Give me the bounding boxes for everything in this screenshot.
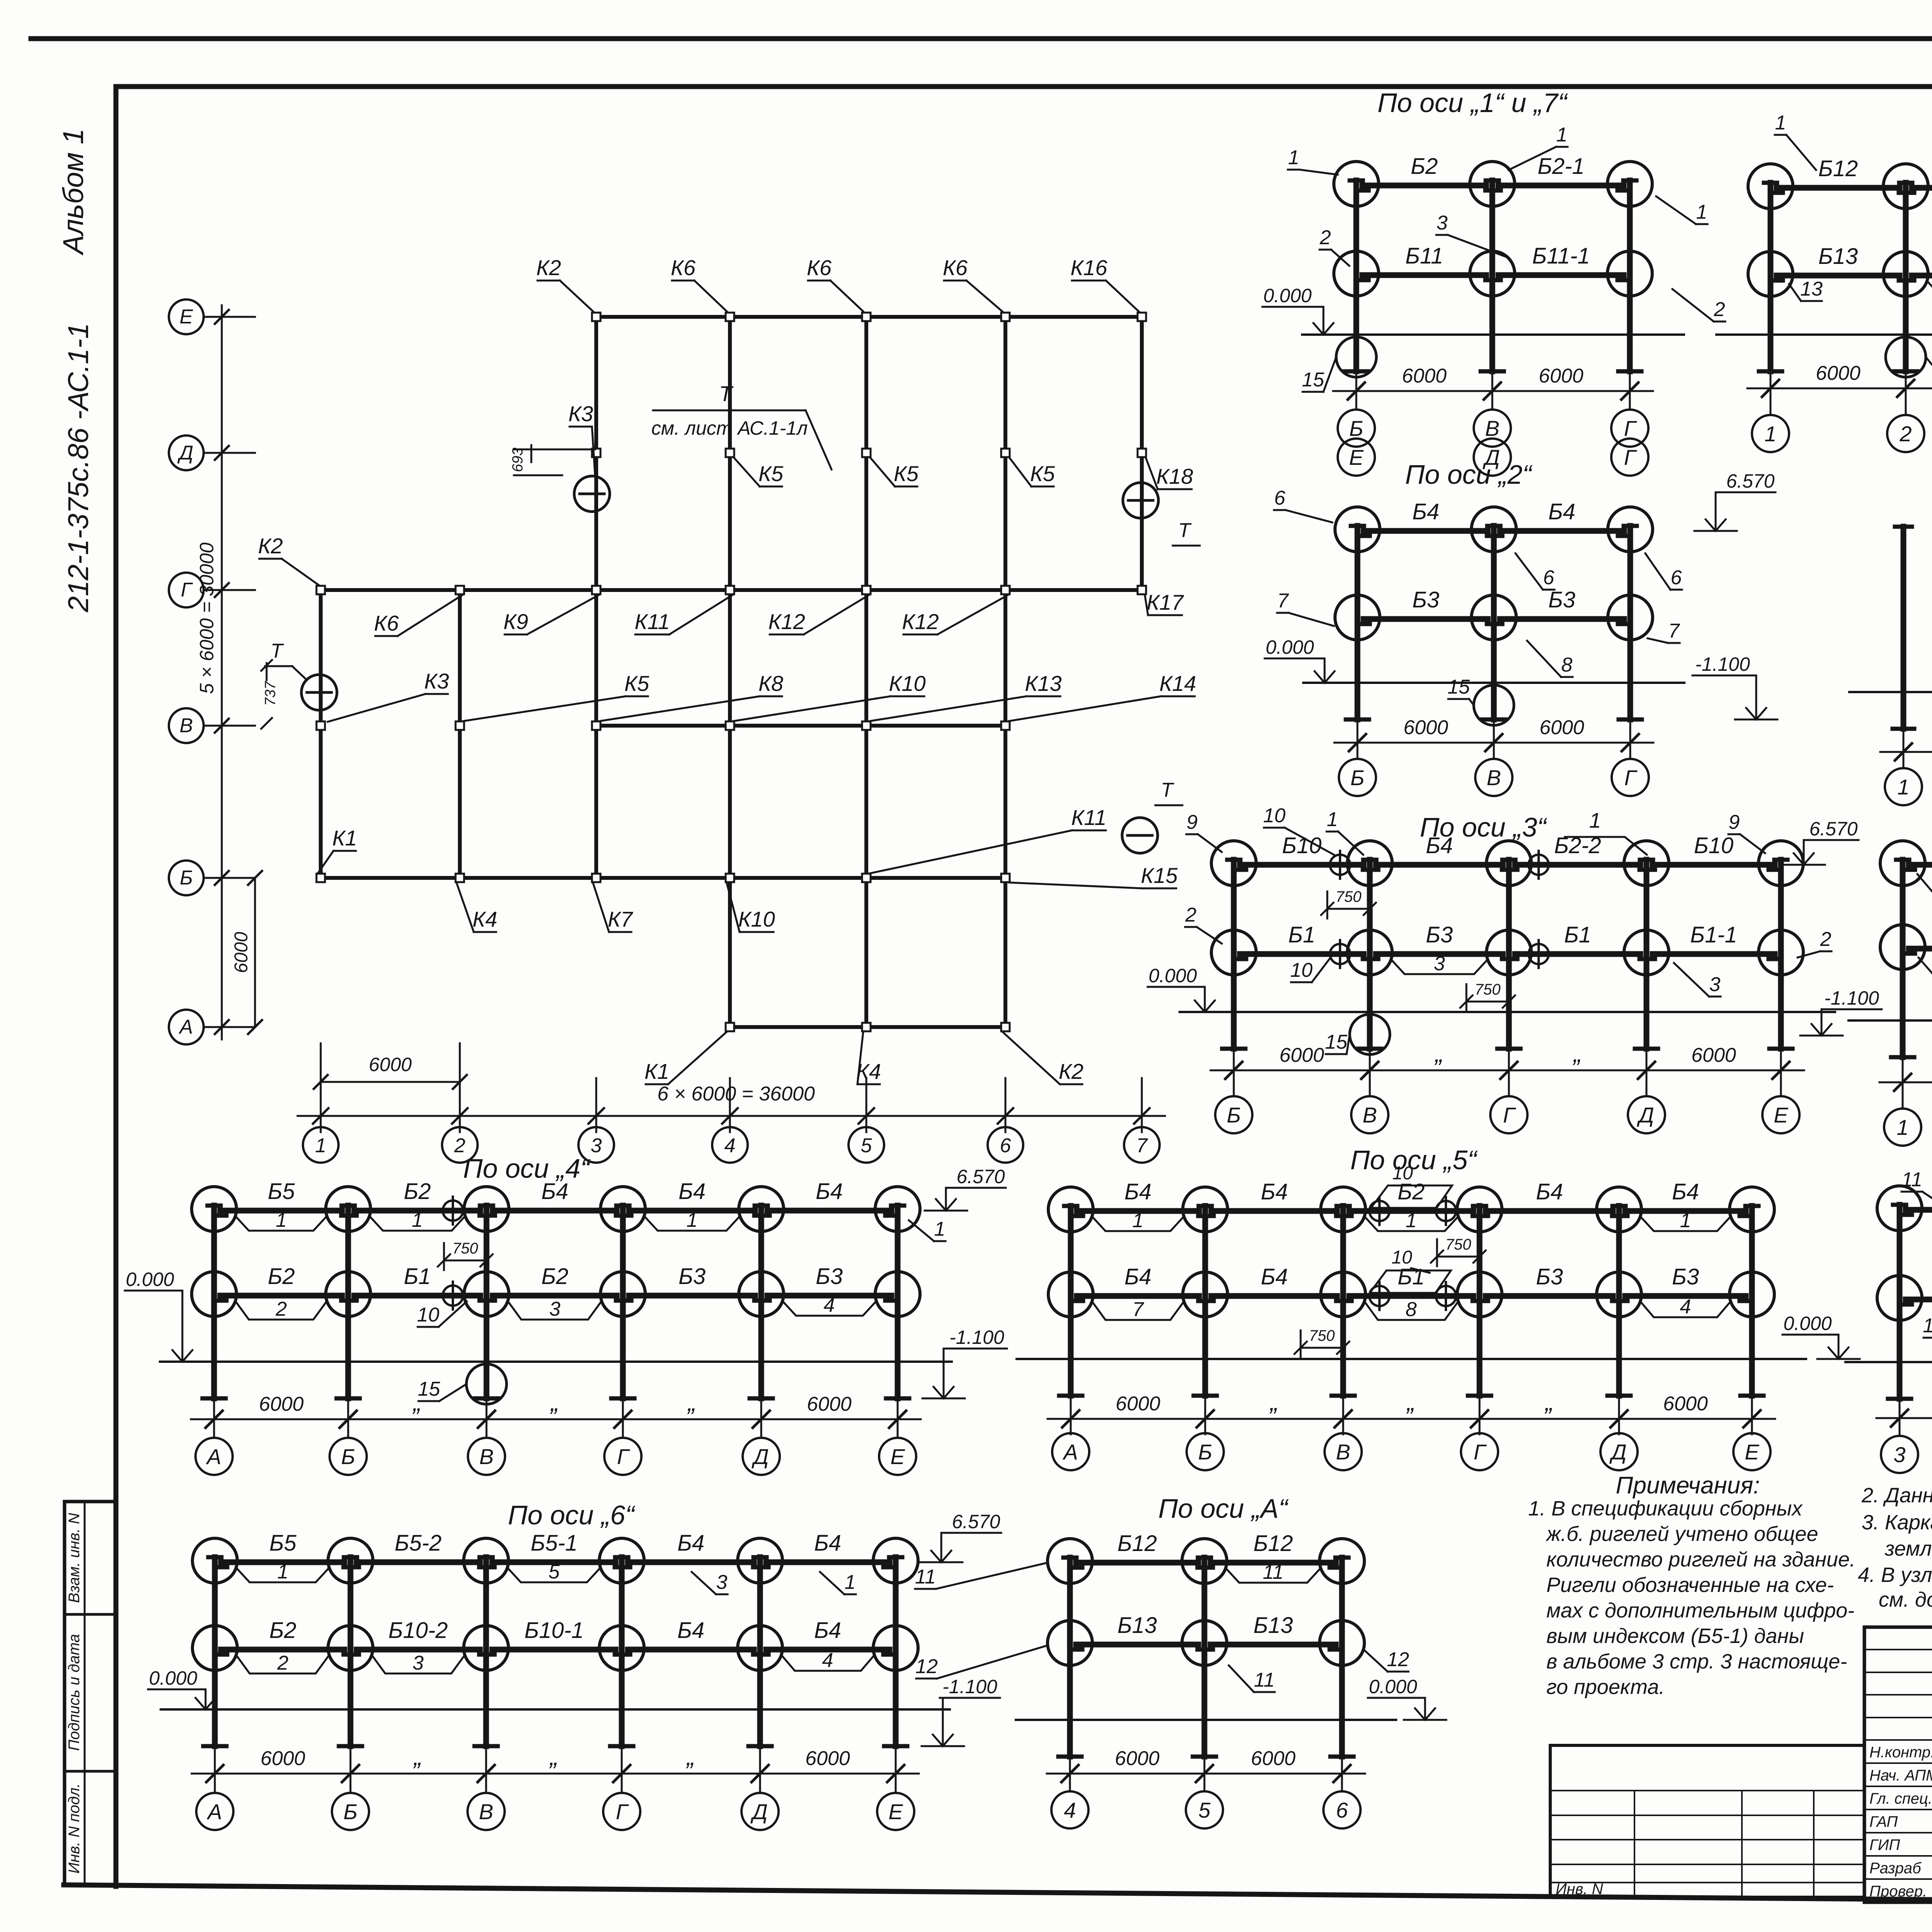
Po osi A joint circle mid axis 2 [1182, 1621, 1227, 1665]
svg-text:11: 11 [1901, 1168, 1922, 1191]
plan node row V col 3 [592, 721, 600, 730]
Po osi 4 column 5 [759, 1206, 764, 1398]
Po osi 4 dim tick [760, 1401, 762, 1435]
plan bottom dim tick [1005, 1078, 1007, 1132]
Po osi 4 ground line [160, 1361, 952, 1363]
svg-text:2: 2 [1714, 298, 1725, 321]
plan wire row A [730, 1025, 1005, 1029]
Po osi 2 joint circle mid axis 1 [1335, 595, 1380, 640]
svg-text:„: „ [687, 1388, 696, 1416]
svg-text:6.570: 6.570 [1809, 818, 1857, 840]
svg-text:10: 10 [1392, 1163, 1413, 1184]
axis circle Г of Po osi 1 i 7 [1629, 406, 1631, 410]
plan bottom main dimension line [298, 1115, 1165, 1117]
Po osi 5 column 2 [1202, 1206, 1208, 1396]
beam Б4 between axes 2-3 (top level) of Po osi 3 [1376, 862, 1503, 868]
Po osi 2 dim tick [1629, 723, 1631, 758]
plan wire column 6 [1003, 317, 1007, 1027]
svg-text:Б: Б [341, 1444, 355, 1469]
Po osi 6 dimension line [192, 1773, 919, 1775]
svg-text:6000: 6000 [1115, 1747, 1160, 1770]
plan wire row G [321, 588, 1142, 592]
Po osi 4 joint circle top axis 3 [464, 1187, 509, 1231]
svg-text:вым индексом (Б5-1) даны: вым индексом (Б5-1) даны [1546, 1624, 1804, 1648]
plan wire row V [596, 724, 1005, 728]
svg-text:землетрясений 2 на 9, 8 и: землетрясений 2 на 9, 8 и 7 баллов. [1884, 1537, 1932, 1560]
svg-text:К11: К11 [634, 609, 670, 634]
plan left dimension line [221, 305, 223, 1039]
svg-text:К3: К3 [424, 669, 449, 693]
Po osi 6 joint circle mid axis 6 [873, 1626, 918, 1670]
plan node row A col 4 [726, 1023, 734, 1031]
plan node row V col 1 [316, 721, 325, 730]
svg-text:3: 3 [413, 1652, 424, 1674]
svg-text:„: „ [413, 1743, 422, 1770]
svg-text:6000: 6000 [231, 932, 252, 973]
Po osi 4 joint circle top axis 1 [192, 1187, 236, 1231]
svg-text:-1.100: -1.100 [949, 1327, 1004, 1348]
plan node row V col 2 [456, 721, 464, 730]
svg-text:750: 750 [1475, 981, 1501, 998]
svg-text:Гл. спец.: Гл. спец. [1869, 1790, 1932, 1807]
Po osi G joint circle top axis 2 [1883, 164, 1928, 209]
svg-text:Б4: Б4 [1124, 1264, 1151, 1289]
Po osi 6 ground line [161, 1708, 950, 1711]
Po osi 2 base circle 15 [1474, 685, 1514, 725]
beam Б2-2 between axes 3-4 (top level) of Po osi 3 [1515, 862, 1640, 868]
Po osi 4 column 6 [895, 1206, 901, 1398]
svg-text:Б2: Б2 [1411, 154, 1438, 179]
svg-text:Б4: Б4 [814, 1618, 841, 1643]
Po osi 1 i 7 joint circle top axis 3 [1607, 162, 1652, 206]
svg-text:Б4: Б4 [1124, 1179, 1151, 1204]
svg-text:Б12: Б12 [1253, 1531, 1293, 1556]
beam Б2 between axes 1-2 (mid level) of Po osi 4 [220, 1293, 342, 1299]
svg-text:4: 4 [724, 1134, 736, 1157]
svg-text:го проекта.: го проекта. [1546, 1675, 1665, 1699]
Po osi 6 joint circle mid axis 2 [328, 1626, 373, 1670]
svg-text:11: 11 [1254, 1669, 1275, 1691]
plan bottom dim tick [595, 1078, 597, 1132]
svg-text:7: 7 [1277, 590, 1289, 612]
svg-text:2: 2 [1820, 928, 1832, 951]
plan node row B col 5 [862, 874, 871, 882]
svg-text:К2: К2 [1059, 1059, 1083, 1083]
plan axis circle Е [169, 299, 204, 334]
Po osi 3 dim tick [1646, 1052, 1648, 1086]
svg-text:Примечания:: Примечания: [1616, 1472, 1760, 1499]
Po osi 1 i 7 joint circle mid axis 1 [1334, 251, 1379, 296]
svg-text:Б2-1: Б2-1 [1537, 154, 1585, 179]
svg-text:В: В [479, 1799, 493, 1824]
svg-text:Т: Т [1178, 519, 1192, 542]
node circles 10 po osi 3 [1330, 855, 1350, 875]
svg-text:1. В спецификации сборных: 1. В спецификации сборных [1528, 1497, 1803, 1520]
Po osi E joint circle mid axis 1 [1877, 1276, 1922, 1320]
svg-text:Б5-1: Б5-1 [531, 1531, 578, 1556]
dim 750 [1466, 1001, 1509, 1003]
Po osi 3 joint circle mid axis 4 [1624, 930, 1669, 975]
Po osi 5 joint circle mid axis 2 [1183, 1272, 1228, 1317]
plan bottom dim tick [320, 1043, 322, 1132]
plan node row D col 4 [726, 449, 734, 457]
beam Б10-2 between axes 2-3 (mid level) of Po osi 6 [357, 1647, 480, 1653]
svg-text:0.000: 0.000 [126, 1269, 174, 1290]
svg-text:2: 2 [276, 1298, 287, 1320]
svg-text:Д: Д [750, 1799, 767, 1824]
svg-text:ж.б. ригелей учтено общее: ж.б. ригелей учтено общее [1546, 1522, 1818, 1546]
beam Б13 between axes 1-2 (mid level) of Po osi A [1076, 1642, 1198, 1648]
svg-text:6000: 6000 [369, 1054, 412, 1075]
beam Б14 between axes 2-3 (mid level) of Po osi G [1912, 273, 1932, 279]
svg-text:750: 750 [1309, 1327, 1335, 1344]
beam Б4 between axes 3-4 (top level) of Po osi 4 [493, 1208, 617, 1214]
svg-text:В: В [180, 714, 193, 737]
svg-text:Б4: Б4 [541, 1179, 568, 1204]
svg-text:Е: Е [1349, 445, 1364, 469]
svg-text:7: 7 [1668, 620, 1680, 642]
Po osi 4 joint circle mid axis 5 [739, 1272, 784, 1316]
svg-text:0.000: 0.000 [1263, 285, 1311, 306]
svg-text:15: 15 [1302, 369, 1325, 391]
svg-text:212-1-375с.86 -АС.1-1: 212-1-375с.86 -АС.1-1 [62, 323, 94, 613]
Po osi A dim tick [1069, 1760, 1071, 1789]
Po osi 6 joint circle top axis 2 [328, 1538, 373, 1583]
plan axis circle 7 [1124, 1127, 1160, 1163]
Po osi 5 column 5 [1616, 1206, 1622, 1396]
svg-text:К5: К5 [894, 461, 919, 486]
beam Б11-1 between axes 2-3 (mid level) of Po osi 1 i 7 [1498, 272, 1624, 278]
svg-text:Г: Г [1624, 765, 1638, 790]
beam Б7 between axes 2-3 (top level) of Po osi G [1912, 185, 1932, 191]
beam Б3 between axes 5-6 (mid level) of Po osi 5 [1625, 1293, 1746, 1299]
Po osi 5 column 3 [1340, 1206, 1346, 1396]
Po osi 6 joint circle mid axis 3 [464, 1626, 509, 1670]
svg-text:5: 5 [1198, 1798, 1211, 1822]
axis circle Г (second row) of Po osi 1 i 7 [1611, 439, 1648, 476]
label 1 [1364, 1216, 1458, 1231]
Po osi 3 joint circle mid axis 1 [1211, 930, 1256, 975]
drawing frame left [114, 87, 119, 1886]
svg-text:Б3: Б3 [816, 1264, 843, 1289]
svg-text:1: 1 [845, 1571, 856, 1594]
plan axis circle 6 [988, 1127, 1023, 1163]
plan view of column layout [169, 255, 1200, 1163]
svg-text:К2: К2 [536, 255, 561, 280]
Po osi G column 1 [1768, 183, 1774, 371]
Po osi 2 joint circle top axis 3 [1608, 507, 1653, 552]
Po osi 6 dim tick [214, 1749, 216, 1789]
label 1 [1092, 1216, 1184, 1231]
axis circle А of Po osi 4 [213, 1435, 215, 1438]
Po osi G joint circle mid axis 2 [1883, 252, 1928, 296]
svg-text:2: 2 [277, 1652, 289, 1674]
Po osi B joint circle mid axis 1 [1880, 925, 1925, 969]
Po osi 5 dim tick [1342, 1399, 1344, 1434]
axis circle 5 of Po osi A [1204, 1789, 1206, 1791]
svg-text:Б11: Б11 [1405, 243, 1443, 269]
svg-text:-1.100: -1.100 [1695, 653, 1750, 675]
label 5 [507, 1568, 600, 1582]
label 1 [644, 1216, 740, 1231]
label 4 [1640, 1301, 1731, 1317]
svg-text:Д: Д [751, 1444, 769, 1469]
beam Б12 between axes 1-2 (top level) of Po osi B [1909, 862, 1932, 868]
plan dim 6000 between B and A [254, 878, 256, 1027]
beam Б4 between axes 2-3 (top level) of Po osi 2 [1500, 528, 1624, 534]
Po osi A ground line [1016, 1719, 1396, 1721]
svg-text:Г: Г [616, 1799, 629, 1824]
dim 750 [1437, 1256, 1480, 1258]
svg-text:6.570: 6.570 [956, 1166, 1005, 1187]
Po osi 3 joint circle top axis 4 [1624, 841, 1669, 886]
Po osi 2 joint circle top axis 1 [1335, 507, 1380, 552]
Po osi 2 dim tick [1493, 723, 1495, 758]
svg-text:3: 3 [1437, 212, 1448, 234]
svg-text:По оси „2“: По оси „2“ [1405, 459, 1533, 490]
plan node row D col 5 [862, 449, 871, 457]
Po osi A joint circle top axis 1 [1048, 1539, 1092, 1583]
svg-text:7: 7 [1133, 1298, 1145, 1321]
svg-text:1: 1 [1897, 775, 1909, 799]
svg-text:2: 2 [1185, 904, 1197, 926]
axis circle В of Po osi 3 [1369, 1086, 1371, 1096]
label 12 [1927, 281, 1932, 296]
svg-text:„: „ [1544, 1388, 1553, 1416]
Po osi 3 joint circle top axis 5 [1759, 841, 1803, 886]
axis circle 3 of Po osi E [1899, 1434, 1901, 1436]
svg-text:12: 12 [1387, 1648, 1409, 1671]
svg-text:количество ригелей на здание.: количество ригелей на здание. [1546, 1548, 1855, 1571]
beam Б5-2 between axes 2-3 (top level) of Po osi 6 [357, 1560, 480, 1565]
beam Б4 between axes 4-5 (mid level) of Po osi 6 [628, 1647, 754, 1653]
svg-text:15: 15 [1325, 1031, 1348, 1053]
Po osi 4 dimension line [191, 1418, 921, 1420]
Po osi 5 column 1 [1068, 1206, 1074, 1396]
Po osi V ground line [1849, 691, 1932, 693]
Po osi 4 column 1 [211, 1206, 217, 1398]
Po osi 6 column 3 [483, 1557, 489, 1746]
svg-text:Д: Д [1609, 1440, 1626, 1464]
Po osi 4 joint circle top axis 6 [875, 1187, 920, 1231]
axis circle А of Po osi 6 [214, 1789, 216, 1793]
Po osi 6 dim tick [895, 1749, 897, 1789]
title block [1864, 1627, 1932, 1905]
beam Б5 between axes 1-2 (top level) of Po osi 6 [221, 1560, 344, 1565]
node circles 10 po osi 5 [1369, 1201, 1389, 1221]
plan node row E col 5 [862, 313, 871, 321]
axis circle Д of Po osi 3 [1646, 1086, 1648, 1096]
svg-text:По оси „6“: По оси „6“ [508, 1500, 636, 1530]
beam Б2 between axes 3-4 (mid level) of Po osi 4 [493, 1293, 617, 1299]
beam Б14 between axes 1-2 (mid level) of Po osi E [1906, 1297, 1932, 1303]
plan node row G col 5 [862, 586, 871, 594]
svg-text:10: 10 [1263, 804, 1286, 827]
plan node row G col 7 [1138, 586, 1146, 594]
svg-text:6000: 6000 [260, 1747, 305, 1770]
plan bottom dim 6000 (1-2) [321, 1081, 460, 1083]
Po osi 3 dim tick [1369, 1052, 1371, 1086]
beam Б1 between axes 1-2 (mid level) of Po osi 3 [1240, 951, 1364, 957]
svg-text:-1.100: -1.100 [942, 1676, 997, 1697]
svg-text:737: 737 [262, 680, 279, 706]
Po osi 5 column 4 [1477, 1206, 1483, 1396]
plan node row E col 4 [726, 313, 734, 321]
svg-text:Б4: Б4 [814, 1531, 841, 1556]
svg-text:1: 1 [277, 1561, 289, 1583]
axis circle Г of Po osi 4 [622, 1435, 624, 1438]
svg-text:1: 1 [1556, 124, 1568, 146]
svg-text:„: „ [1406, 1388, 1415, 1416]
svg-text:К12: К12 [768, 609, 805, 634]
svg-text:А: А [206, 1444, 221, 1469]
plan node row D col 7 [1138, 449, 1146, 457]
svg-text:6000: 6000 [1116, 1393, 1160, 1415]
drawing frame top [116, 84, 1932, 89]
axis circle 1 of Po osi B [1902, 1098, 1904, 1109]
svg-text:К16: К16 [1070, 255, 1107, 280]
svg-text:Б4: Б4 [1412, 499, 1439, 524]
svg-text:Взам. инв. N: Взам. инв. N [66, 1513, 83, 1603]
Po osi 3 column 2 [1367, 860, 1373, 1049]
plan circle T row B [1122, 818, 1158, 853]
plan node row G col 2 [456, 586, 464, 594]
axis circle Б of Po osi 4 [347, 1435, 349, 1438]
Po osi 4 column 2 [345, 1206, 351, 1398]
plan node row G col 4 [726, 586, 734, 594]
plan wire column 2 [458, 590, 462, 878]
svg-text:По оси „А“: По оси „А“ [1158, 1493, 1289, 1524]
svg-text:Б5: Б5 [269, 1531, 297, 1556]
beam Б3 between axes 1-2 (mid level) of Po osi 2 [1364, 616, 1488, 622]
svg-text:4: 4 [822, 1649, 833, 1672]
Po osi 5 joint circle mid axis 6 [1730, 1272, 1774, 1317]
Po osi 6 joint circle top axis 4 [599, 1538, 644, 1583]
svg-text:Б3: Б3 [1426, 922, 1453, 947]
Po osi 2 column 3 [1628, 526, 1633, 719]
Po osi 3 ground line [1180, 1011, 1835, 1013]
Po osi A joint circle mid axis 1 [1048, 1621, 1092, 1665]
Po osi A column 1 [1067, 1558, 1073, 1757]
Po osi A column 2 [1202, 1558, 1207, 1757]
svg-text:К5: К5 [1030, 461, 1055, 486]
label 4 [781, 1655, 874, 1671]
plan axis circle Д [169, 435, 204, 470]
plan node row G col 6 [1001, 586, 1010, 594]
Po osi 3 column 5 [1778, 860, 1784, 1049]
beam Б2 between axes 3-4 (top level) of Po osi 5 [1349, 1208, 1473, 1214]
plan circle T row V [301, 675, 337, 710]
label 1 [1640, 1216, 1731, 1231]
schematic Po osi 1 i 7 [1302, 154, 1684, 476]
Po osi A joint circle top axis 2 [1182, 1539, 1227, 1583]
svg-text:Б13: Б13 [1818, 244, 1858, 269]
svg-text:4. В узлах „10“ устанавливаетс: 4. В узлах „10“ устанавливается изделие … [1858, 1563, 1932, 1587]
beam Б12 between axes 1-2 (top level) of Po osi A [1076, 1560, 1198, 1566]
svg-text:Б4: Б4 [1261, 1264, 1288, 1289]
Po osi 6 column 5 [757, 1557, 763, 1746]
svg-text:Б1: Б1 [1288, 922, 1315, 947]
plan node row B col 1 [316, 874, 325, 882]
svg-text:Б4: Б4 [677, 1618, 704, 1643]
Po osi 4 joint circle top axis 4 [600, 1187, 645, 1231]
svg-text:0.000: 0.000 [149, 1667, 197, 1689]
svg-text:Инв. N подл.: Инв. N подл. [66, 1783, 83, 1874]
Po osi E dimension line [1876, 1417, 1932, 1419]
Po osi 5 joint circle top axis 2 [1183, 1187, 1228, 1232]
svg-text:750: 750 [452, 1240, 478, 1257]
svg-text:4: 4 [1680, 1296, 1691, 1318]
svg-text:4: 4 [1064, 1798, 1076, 1822]
svg-text:11: 11 [1263, 1561, 1284, 1583]
svg-text:К6: К6 [671, 255, 696, 280]
beam Б11 between axes 1-2 (mid level) of Po osi 1 i 7 [1362, 272, 1486, 278]
beam Б10 between axes 4-5 (top level) of Po osi 3 [1653, 862, 1775, 868]
Po osi 6 joint circle top axis 5 [738, 1538, 782, 1583]
Po osi 1 i 7 dimension line [1333, 390, 1653, 392]
plan node row B col 6 [1001, 874, 1010, 882]
svg-text:Б: Б [180, 867, 193, 889]
svg-text:6000: 6000 [1279, 1044, 1324, 1066]
Po osi E dim tick [1899, 1402, 1901, 1434]
Po osi 4 joint circle top axis 5 [739, 1187, 784, 1231]
beam Б3 between axes 4-5 (mid level) of Po osi 4 [629, 1293, 755, 1299]
svg-text:Г: Г [1503, 1103, 1516, 1127]
svg-text:1: 1 [412, 1209, 423, 1231]
plan bottom dim tick [866, 1078, 867, 1132]
Po osi 3 joint circle top axis 2 [1347, 841, 1392, 886]
Po osi 1 i 7 joint circle top axis 2 [1470, 162, 1515, 206]
beam Б4 between axes 5-6 (top level) of Po osi 5 [1625, 1208, 1746, 1214]
axis circle Д of Po osi 4 [760, 1435, 762, 1438]
Po osi A dimension line [1047, 1773, 1365, 1775]
svg-text:К11: К11 [1071, 805, 1106, 830]
svg-text:В: В [1485, 416, 1499, 440]
Po osi 3 base circle 15 [1350, 1014, 1390, 1054]
schematic Po osi 2 [1303, 499, 1684, 796]
svg-text:Б5-2: Б5-2 [395, 1531, 442, 1556]
svg-text:Б3: Б3 [1548, 587, 1575, 612]
svg-text:Б2: Б2 [269, 1618, 296, 1643]
Po osi 1 i 7 joint circle top axis 1 [1334, 162, 1379, 206]
svg-text:0.000: 0.000 [1265, 636, 1314, 658]
svg-text:В: В [1362, 1103, 1377, 1127]
Po osi G ground line [1716, 333, 1932, 336]
beam Б4 between axes 2-3 (top level) of Po osi 5 [1211, 1208, 1337, 1214]
Po osi 2 joint circle top axis 2 [1471, 507, 1516, 552]
svg-text:К7: К7 [608, 907, 633, 931]
beam Б1 between axes 2-3 (mid level) of Po osi 4 [354, 1293, 480, 1299]
svg-text:„: „ [549, 1388, 559, 1416]
Po osi G dim tick [1905, 374, 1907, 404]
label 2 [236, 1655, 329, 1673]
svg-text:К8: К8 [759, 671, 783, 696]
svg-text:ГИП: ГИП [1869, 1837, 1900, 1854]
Po osi 6 dim tick [621, 1749, 623, 1789]
svg-text:Инв. N: Инв. N [1556, 1881, 1603, 1898]
svg-text:„: „ [549, 1743, 558, 1770]
axis circle Е (second row) of Po osi 1 i 7 [1338, 439, 1375, 476]
plan node row E col 7 [1138, 313, 1146, 321]
axis circle В of Po osi 6 [485, 1789, 487, 1793]
beam Б13 between axes 1-2 (mid level) of Po osi B [1909, 946, 1932, 952]
svg-text:Б3: Б3 [1536, 1264, 1563, 1289]
beam Б1 between axes 3-4 (mid level) of Po osi 3 [1515, 951, 1640, 957]
Po osi V dim tick [1903, 732, 1905, 767]
schematic Po osi G [1716, 156, 1932, 452]
Po osi B ground line [1849, 1019, 1932, 1022]
axis circle 6 of Po osi A [1341, 1789, 1343, 1791]
